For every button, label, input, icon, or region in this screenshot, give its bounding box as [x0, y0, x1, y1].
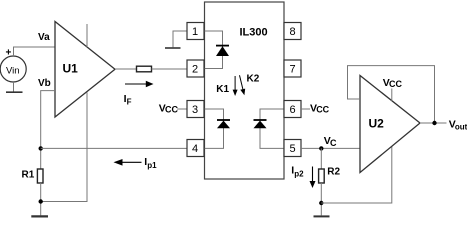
pin 7	[284, 60, 301, 77]
svg-text:p2: p2	[294, 169, 304, 178]
svg-text:+: +	[5, 47, 11, 58]
coupling arrow K2	[240, 74, 260, 96]
node junction dot (Vb / Ip1 wire)	[39, 146, 43, 150]
svg-text:6: 6	[289, 104, 295, 116]
U2 VCC supply stub	[383, 77, 403, 101]
node Vout label	[449, 118, 467, 131]
svg-text:3: 3	[192, 104, 198, 116]
svg-text:R2: R2	[327, 166, 340, 177]
pin 1	[187, 23, 204, 40]
svg-text:Vb: Vb	[38, 78, 51, 89]
series resistor (unlabeled)	[137, 66, 152, 72]
svg-text:8: 8	[289, 26, 295, 38]
node junction dot VC	[319, 146, 323, 150]
resistor R1	[37, 169, 43, 183]
photodiode PD1	[217, 120, 230, 128]
svg-text:1: 1	[192, 26, 198, 38]
pin 2	[187, 60, 204, 77]
op-amp U1	[55, 22, 115, 118]
svg-text:2: 2	[192, 64, 198, 76]
node VC label	[324, 135, 337, 148]
LED (anode pin2, cathode pin1)	[216, 46, 229, 56]
U1 bottom supply stub / wire to ground rail	[41, 92, 87, 201]
pin 8	[284, 23, 301, 40]
ground (under Vin)	[6, 91, 23, 93]
svg-text:U1: U1	[63, 62, 79, 76]
ground (under R1)	[31, 215, 48, 217]
current arrow IF	[124, 81, 154, 107]
svg-text:p1: p1	[147, 161, 157, 170]
svg-text:5: 5	[289, 143, 295, 155]
wire resistor to pin 2	[152, 68, 188, 70]
VCC label + wire at pin 6	[301, 102, 330, 114]
resistor R2	[319, 169, 325, 183]
wire R2 bottom to ground	[320, 183, 322, 215]
wire U1 output to series resistor	[115, 68, 137, 70]
svg-text:C: C	[330, 138, 337, 148]
current arrow Ip2	[291, 164, 315, 188]
photodiode bracket pin3-pin4	[205, 109, 224, 148]
svg-text:out: out	[455, 122, 467, 131]
wire R1 bottom to ground	[40, 183, 42, 215]
svg-text:CC: CC	[165, 105, 178, 115]
op-amp U2	[360, 76, 420, 173]
svg-text:7: 7	[289, 64, 295, 76]
svg-text:CC: CC	[389, 79, 402, 89]
svg-text:IL300: IL300	[240, 26, 268, 38]
node junction dot (output/feedback)	[432, 121, 436, 125]
wire U2 output to Vout	[420, 122, 447, 124]
wire pin5 to U2 +input (VC net)	[301, 147, 360, 149]
photodiode PD2	[254, 120, 267, 128]
svg-text:Vin: Vin	[6, 66, 20, 77]
svg-text:F: F	[127, 97, 132, 106]
wire bottom rail to U2 negative supply stub	[321, 147, 392, 204]
pin 3	[187, 101, 204, 118]
svg-text:K2: K2	[247, 74, 260, 85]
svg-text:U2: U2	[369, 116, 385, 130]
wire VC to R2	[320, 148, 322, 169]
wire Vb: to U1 -input	[41, 91, 55, 169]
photodiode bracket pin6-pin5	[260, 109, 284, 148]
pin 5	[284, 140, 301, 157]
wire Va: Vin top to U1 +input	[14, 47, 56, 56]
svg-text:CC: CC	[316, 105, 329, 115]
svg-text:R1: R1	[22, 170, 35, 181]
wire Vin bottom to ground	[13, 82, 15, 92]
svg-text:4: 4	[192, 143, 198, 155]
wire pin1 to ground	[173, 31, 187, 47]
node junction dot (R1 bottom / rail)	[39, 199, 43, 203]
pin 4	[187, 140, 204, 157]
VCC label + wire at pin 3	[159, 102, 187, 114]
ground (pin 1)	[165, 47, 181, 49]
wire pin4 to R1 junction (Ip1 net)	[41, 147, 187, 149]
node junction dot (R2 bottom / rail)	[319, 201, 323, 205]
wire U2 feedback loop (output to -input)	[348, 66, 435, 123]
svg-text:Va: Va	[38, 32, 50, 43]
pin 6	[284, 101, 301, 118]
U1 top supply stub	[86, 24, 88, 47]
LED bracket pin1-pin2	[205, 31, 223, 69]
ground (under R2)	[314, 215, 330, 217]
coupling arrow K1	[216, 76, 237, 96]
voltage source Vin	[0, 47, 26, 82]
svg-text:K1: K1	[216, 84, 229, 95]
current arrow Ip1	[114, 156, 158, 170]
IC IL300 body	[205, 2, 285, 179]
